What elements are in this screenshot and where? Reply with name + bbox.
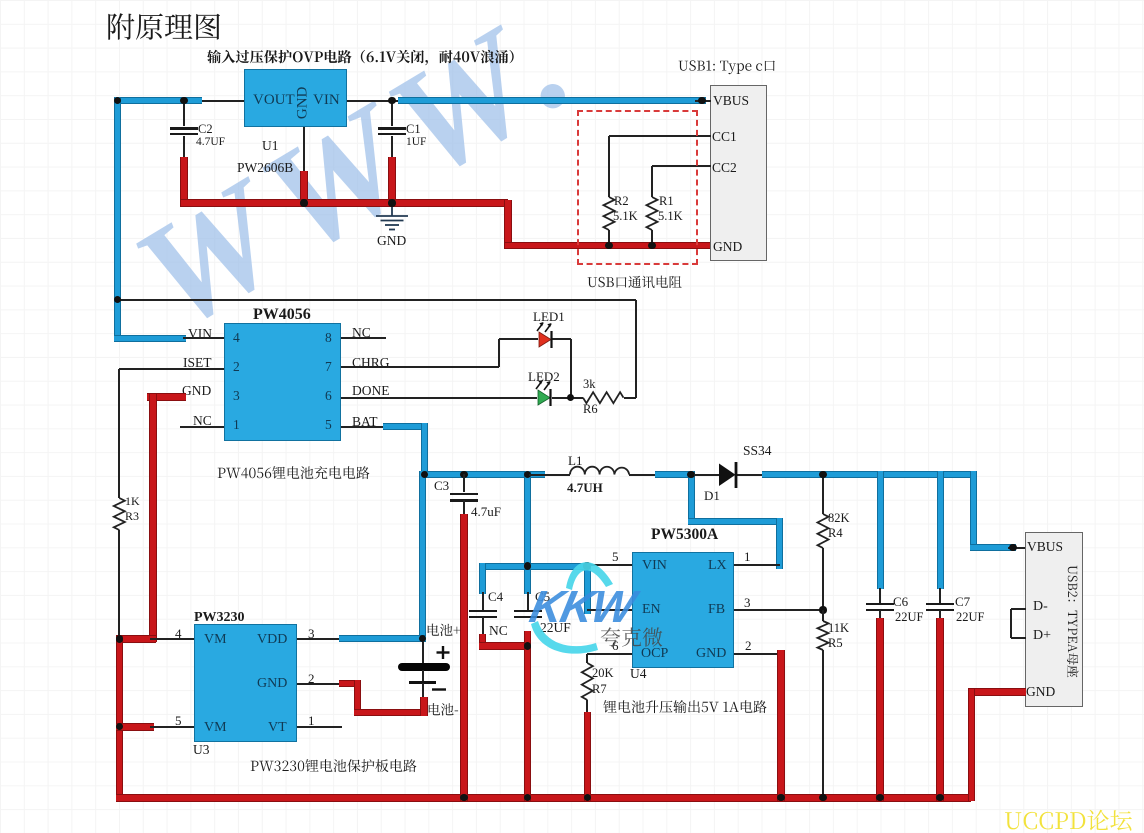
resistor R7 20K (582, 663, 593, 700)
wire LED net top (118, 299, 637, 301)
junction C5/VIN node (524, 562, 531, 569)
wire blue to PW4056 VIN (114, 335, 186, 342)
wire blue EN drop (584, 563, 591, 614)
pin label ISET (183, 356, 212, 370)
label GND (377, 234, 406, 248)
label LED1 (533, 310, 565, 324)
junction battery+ (419, 635, 426, 642)
label D1 (704, 489, 720, 503)
junction R3/red (116, 635, 123, 642)
junction BAT/bus (421, 471, 428, 478)
label PW3230 protection circuit (251, 759, 417, 772)
title 附原理图 (108, 13, 220, 40)
capacitor C6 (866, 603, 894, 606)
wire red R7 to bus (584, 712, 592, 801)
wire C4 bottom (482, 617, 484, 638)
pin label VIN (313, 93, 340, 109)
pin number 3 (308, 627, 315, 641)
wire CC1 (609, 135, 711, 137)
wire ISET (119, 368, 224, 370)
label PW4056 charging circuit (218, 466, 370, 479)
pin label VM2 (204, 721, 227, 736)
value 22UF (540, 621, 571, 635)
wire L1 left (529, 474, 570, 476)
label SS34 (743, 444, 772, 458)
wire red C5 to bus (524, 631, 532, 801)
wire C5 mid (527, 592, 529, 610)
wire R4 bottom (822, 548, 824, 610)
wire VDD3 (297, 638, 342, 640)
wire R6 right (624, 397, 637, 399)
pin label OCP (641, 647, 668, 662)
wire D1 anode (694, 474, 720, 476)
wire R2 bottom (608, 230, 610, 245)
pin VBUS (713, 94, 749, 108)
pin number 6 (325, 389, 332, 403)
wire LX pin (734, 564, 780, 566)
dashed box USB resistors (577, 110, 698, 265)
wire BAT stub (341, 426, 388, 428)
pin label DONE (352, 384, 390, 398)
wire NC8 (341, 337, 386, 339)
wire C6 low (879, 610, 881, 622)
wire R4 top (822, 475, 824, 515)
pin GND (713, 240, 742, 254)
wire VM5 (150, 726, 194, 728)
LED LED1 red (537, 322, 552, 348)
label U1 (262, 139, 279, 153)
resistor R6 3k (583, 392, 624, 403)
wire R7 bottom (586, 700, 588, 716)
wire C3 bottom (463, 500, 465, 518)
IC U4 PW5300A body (632, 552, 734, 668)
junction R7/bus (584, 794, 591, 801)
wire blue C6 drop (877, 471, 884, 589)
wire LED1 cathode (552, 338, 571, 340)
junction R4/bus (819, 471, 826, 478)
wire R1 bottom (651, 230, 653, 245)
junction C7/bus (936, 794, 943, 801)
wire blue to USB2 VBUS (970, 471, 977, 551)
ground symbol (376, 207, 408, 230)
pin VBUS (1027, 540, 1063, 554)
wire red C7 to bus (936, 618, 944, 801)
wire blue LX horizontal (688, 518, 783, 525)
pin D+ (1033, 629, 1051, 644)
wire red VM5 stub (116, 723, 154, 731)
label U4 (630, 667, 647, 681)
wire blue C4 drop (479, 563, 486, 595)
wire red C6 to bus (876, 618, 884, 801)
pin label VOUT (253, 93, 295, 109)
junction C1/GND bus (388, 199, 395, 206)
pin number 8 (325, 331, 332, 345)
wire C7 low (939, 610, 941, 622)
wire red USB2 GND down (968, 689, 976, 801)
pin label VM (204, 633, 227, 648)
battery B1 (422, 642, 424, 663)
wire red battery- stub (420, 697, 428, 716)
value 4.7UF (196, 136, 225, 148)
junction C4/C5 red (524, 642, 531, 649)
wire FB pin (734, 609, 823, 611)
pin number 5 (325, 418, 332, 432)
pin number 2 (308, 672, 315, 686)
wire C2 top (183, 100, 185, 126)
pin label NC (193, 414, 212, 428)
pin number 1 (308, 714, 315, 728)
wire VBUS blue top-left (114, 97, 202, 104)
wire R5 wires (822, 610, 824, 621)
wire blue VBUS2 stub (970, 544, 1017, 551)
wire GND red to USB1 (505, 242, 712, 250)
capacitor C7 (926, 603, 954, 606)
pin number 7 (325, 360, 332, 374)
wire CHRG (341, 366, 499, 368)
connector USB1 Type-C body (710, 85, 767, 261)
label boost output circuit (603, 700, 766, 713)
pin label EN (642, 603, 661, 618)
value 1UF (406, 136, 426, 148)
pin label GND (182, 384, 211, 398)
pin number 2 (745, 639, 752, 653)
wire red down (354, 680, 362, 716)
label U3 (193, 743, 210, 757)
wire blue left vertical (114, 97, 121, 342)
value 3k (583, 378, 596, 391)
value 22UF (956, 611, 984, 624)
wire DONE (341, 397, 537, 399)
junction LED2/R6 (567, 394, 574, 401)
wire VM4 (150, 638, 194, 640)
value 4.7uF (471, 505, 501, 519)
label R2 (614, 195, 629, 208)
watermark WWW diagonal (113, 0, 722, 355)
wire blue VIN node horizontal (479, 563, 591, 570)
wire red GND down (149, 394, 157, 643)
battery minus sign (432, 688, 446, 690)
wire VIN stub (183, 337, 224, 339)
junction R2/GND (605, 242, 612, 249)
junction U1 GND/bus (300, 199, 307, 206)
label C3 (434, 479, 449, 493)
wire blue down to bus (421, 423, 428, 478)
value 22UF (895, 611, 923, 624)
wire red PW4056 GND (147, 393, 186, 401)
op-amp U1 PW2606B body (244, 69, 347, 127)
wire red USB2 GND (968, 688, 1026, 696)
pin number 2 (233, 360, 240, 374)
wire D1 cathode (736, 474, 764, 476)
pin CC1 (712, 130, 737, 144)
wire blue battery+ vertical (419, 471, 426, 642)
wire red PW5300A GND (777, 650, 785, 801)
IC U3 PW3230 body (194, 624, 297, 742)
capacitor C2 (170, 127, 198, 130)
wire VIN pin (587, 564, 632, 566)
wire R3 bottom (118, 530, 120, 640)
pin GND (1026, 685, 1055, 699)
wire C4 mid (482, 592, 484, 610)
pin number 1 (744, 550, 751, 564)
label USB resistors note (588, 276, 682, 288)
wire C1 bottom (391, 136, 393, 160)
wire red C4 drop (479, 634, 487, 650)
label C7 (955, 595, 970, 609)
value 5.1K (658, 210, 683, 223)
value 5.1K (613, 210, 638, 223)
label C6 (893, 595, 908, 609)
wire D- D+ bracket (1011, 608, 1026, 610)
pin D- (1033, 600, 1048, 615)
resistor R1 5.1K (647, 197, 658, 230)
wire red left vertical (116, 636, 124, 802)
wire GND pin2 (734, 653, 781, 655)
wire L1 right (629, 474, 658, 476)
value 1K (125, 495, 140, 508)
pin number 6 (612, 639, 619, 653)
junction VBUS2 (1009, 544, 1016, 551)
wire LED2 cathode (552, 397, 583, 399)
junction R5/bus (819, 794, 826, 801)
capacitor C5 (514, 610, 542, 613)
wire VT1 (297, 726, 342, 728)
pin label VDD (257, 633, 287, 648)
resistor R5 11K (818, 621, 829, 650)
junction C2/VBUS (180, 97, 187, 104)
wire C1 top (391, 100, 393, 126)
pin label GND (696, 647, 726, 662)
wire red U1 GND to bus (300, 171, 308, 207)
wire red to R3 node (116, 635, 156, 643)
label battery+ (428, 624, 461, 637)
wire VBUS blue to USB1 (398, 97, 706, 104)
pin label VT (268, 721, 287, 736)
wire GND2 (297, 683, 342, 685)
wire red to battery- (354, 709, 428, 717)
label R5 (828, 637, 843, 650)
wire CC2 (652, 165, 711, 167)
wire C6 mid (879, 588, 881, 603)
pin number 5 (175, 714, 182, 728)
wire red C3 down to bus (460, 514, 468, 801)
label USB1 Type c (679, 60, 775, 74)
IC PW4056 body (224, 323, 341, 441)
value NC (489, 624, 508, 638)
wire red GND2 stub (339, 680, 361, 688)
wire NC1 (180, 426, 224, 428)
pin number 4 (233, 331, 240, 345)
pin number 3 (744, 596, 751, 610)
wire red C2 to GND bus (180, 157, 188, 207)
pin label GND rotated (295, 87, 311, 120)
pin number 1 (233, 418, 240, 432)
junction VBUS pin (698, 97, 705, 104)
junction EN node (583, 562, 590, 569)
label LED2 (528, 370, 560, 384)
wire VIN right (345, 100, 400, 102)
wire blue VDD to battery+ (339, 635, 426, 642)
connector USB2 TYPEA body (1025, 532, 1083, 707)
pin label FB (708, 603, 725, 618)
label UCCPD forum (1005, 810, 1132, 831)
wire VOUT left (196, 100, 246, 102)
junction FB (819, 606, 826, 613)
pin label BAT (352, 415, 378, 429)
label R7 (592, 683, 607, 696)
label R3 (125, 510, 139, 523)
pin label VIN (188, 327, 212, 341)
inductor L1 (570, 467, 629, 475)
logo 夸克微 (601, 627, 663, 647)
wire GND red down (504, 200, 512, 249)
capacitor C1 (378, 127, 406, 130)
junction GND2/bus (777, 794, 784, 801)
label battery- (429, 703, 458, 716)
junction D1 node (687, 471, 694, 478)
label PW2606B (237, 161, 293, 175)
label PW3230 (194, 611, 245, 626)
wire red C1 to GND bus (388, 157, 396, 207)
label OVP circuit note (207, 50, 514, 65)
pin number 4 (175, 627, 182, 641)
wire red bottom bus (116, 794, 972, 802)
value 11K (828, 622, 849, 635)
junction C3 (460, 471, 467, 478)
wire VBUS1 pin stub (695, 100, 711, 102)
pin number 5 (612, 550, 619, 564)
label C5 (535, 590, 550, 604)
pin label GND (257, 677, 287, 692)
wire VBUS2 pin (1008, 547, 1026, 549)
wire red C4-C5 link (479, 642, 531, 650)
value 20K (592, 667, 614, 680)
logo KKW text (525, 581, 638, 633)
pin label VIN (642, 559, 667, 574)
wire BAT blue (383, 423, 428, 430)
resistor R2 5.1K (604, 197, 615, 230)
value 82K (828, 512, 850, 525)
label R1 (659, 195, 674, 208)
wire blue output bus (762, 471, 977, 478)
wire blue down to LX loop (688, 471, 695, 525)
wire blue down to LX pin (776, 518, 783, 569)
pin number 3 (233, 389, 240, 403)
wire OCP pin (587, 653, 632, 655)
capacitor C3 (450, 493, 478, 496)
junction C5 node (524, 471, 531, 478)
label R4 (828, 527, 843, 540)
wire C2 bottom (183, 136, 185, 160)
pin CC2 (712, 161, 737, 175)
label PW4056 (253, 307, 311, 324)
label C4 (488, 590, 503, 604)
capacitor C4 (469, 610, 497, 613)
junction C1/VBUS (388, 97, 395, 104)
junction blue/LED net (114, 296, 121, 303)
junction R1/GND (648, 242, 655, 249)
pin label LX (708, 559, 727, 574)
label R6 (583, 403, 598, 416)
wire blue L1 to D1 node (655, 471, 695, 478)
diode D1 SS34 (719, 462, 736, 488)
resistor R3 1K (114, 498, 125, 530)
pin label CHRG (352, 356, 390, 370)
label L1 (568, 454, 582, 468)
junction C5/bus (524, 794, 531, 801)
wire C3 top (463, 474, 465, 492)
resistor R4 82K (818, 514, 829, 548)
wire EN pin (587, 609, 632, 611)
LED LED2 green (536, 380, 551, 406)
wire blue C5/VIN node vertical (524, 471, 531, 594)
value 4.7UH (567, 481, 603, 495)
junction C3/bus (460, 794, 467, 801)
label USB2 TYPEA vertical (1067, 566, 1079, 678)
junction corner (114, 97, 121, 104)
junction VM5 (116, 723, 123, 730)
logo arcs cyan (531, 562, 613, 654)
wire blue C7 drop (937, 471, 944, 589)
pin label NC (352, 326, 371, 340)
wire blue bus mid (421, 471, 545, 478)
label C2 (198, 123, 213, 136)
label PW5300A (651, 527, 718, 543)
wire C7 mid (939, 588, 941, 603)
battery plus sign (437, 646, 450, 659)
wire GND red bus top (181, 199, 509, 207)
wire U1 GND pin (303, 127, 305, 175)
label C1 (406, 123, 421, 136)
junction C6/bus (876, 794, 883, 801)
